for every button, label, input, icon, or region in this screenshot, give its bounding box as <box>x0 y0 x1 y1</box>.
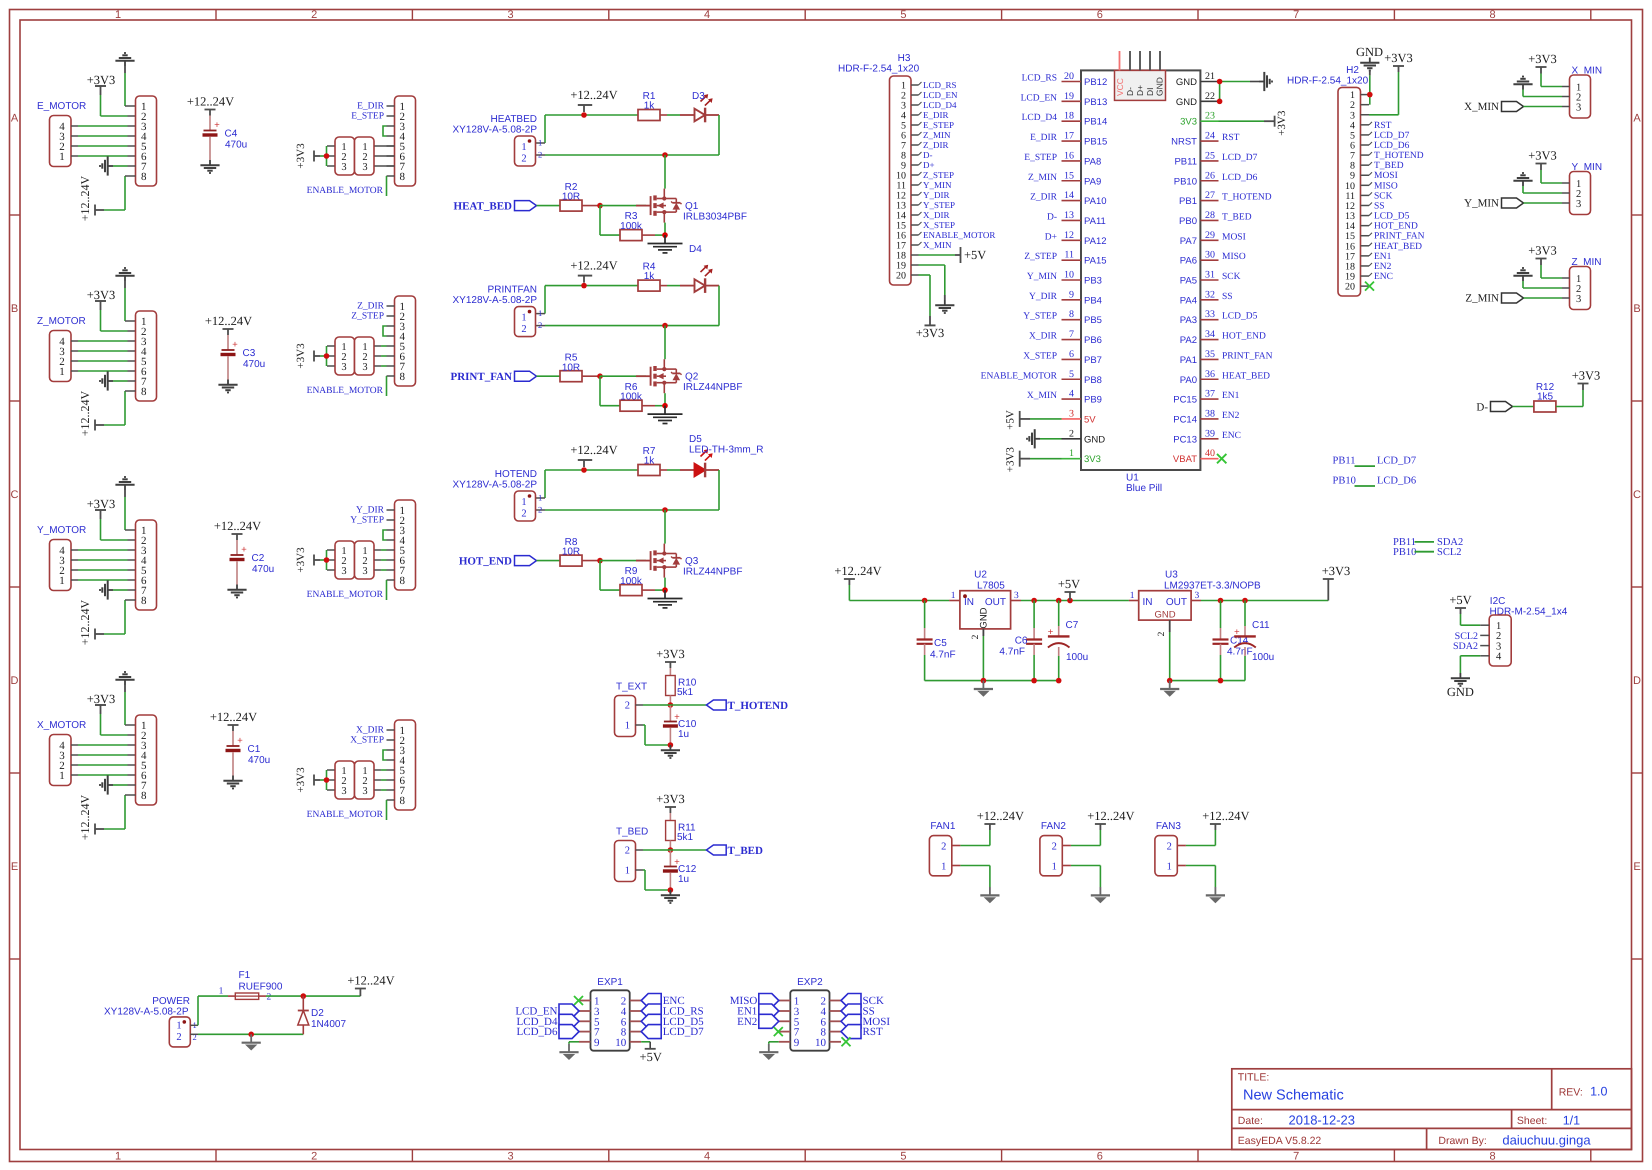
svg-text:+3V3: +3V3 <box>1322 564 1351 578</box>
+12..24V power flag <box>1071 809 1135 846</box>
svg-text:Date:: Date: <box>1238 1115 1263 1127</box>
svg-text:8: 8 <box>141 386 147 398</box>
connector T_BED <box>615 827 649 882</box>
svg-text:PA4: PA4 <box>1180 295 1197 306</box>
svg-text:TITLE:: TITLE: <box>1238 1072 1270 1084</box>
svg-text:1: 1 <box>59 575 65 587</box>
pin 10 PB3 (U1 left) <box>1027 270 1102 287</box>
ground <box>115 672 135 725</box>
resistor R1 1k <box>638 91 667 121</box>
ground <box>1513 268 1562 288</box>
junction <box>597 373 603 379</box>
pin 37 PC15 (U1 right) <box>1173 389 1239 406</box>
svg-text:1: 1 <box>521 497 526 508</box>
no-connect X <box>774 1027 783 1036</box>
resistor R7 1k <box>638 446 667 476</box>
svg-text:24: 24 <box>1205 131 1215 142</box>
svg-text:SDA2: SDA2 <box>1453 641 1478 652</box>
svg-text:IRLZ44NPBF: IRLZ44NPBF <box>683 382 742 393</box>
wire pins 3-4 bridge <box>383 530 387 540</box>
svg-text:Q3: Q3 <box>685 556 699 567</box>
svg-text:4: 4 <box>1069 389 1074 400</box>
svg-text:D+: D+ <box>1045 232 1057 242</box>
svg-text:3: 3 <box>362 362 367 373</box>
svg-text:RST: RST <box>1222 133 1240 143</box>
connector PRINTFAN XY128V-A-5.08-2P <box>453 285 543 337</box>
svg-text:17: 17 <box>1064 131 1074 142</box>
svg-text:7: 7 <box>1293 1151 1299 1163</box>
wire pin1 to ground <box>960 866 990 888</box>
connector HEATBED XY128V-A-5.08-2P <box>453 114 543 166</box>
svg-text:+: + <box>241 545 247 556</box>
svg-text:T_BED: T_BED <box>1222 212 1252 222</box>
svg-text:T_BED: T_BED <box>1374 161 1404 171</box>
pin 27 PB1 (U1 right) <box>1179 190 1272 207</box>
wire U2 out rail <box>1021 600 1129 602</box>
svg-text:2: 2 <box>1052 841 1057 852</box>
svg-text:+3V3: +3V3 <box>87 73 116 87</box>
svg-text:EN1: EN1 <box>1222 391 1240 401</box>
pin 11 PA15 (U1 left) <box>1024 250 1106 267</box>
input flag HEAT_BED <box>454 200 560 212</box>
pin 33 PA3 (U1 right) <box>1180 309 1258 326</box>
svg-text:NRST: NRST <box>1171 137 1197 148</box>
svg-text:20: 20 <box>1345 282 1355 293</box>
capacitor C6 4.7nF <box>999 601 1042 681</box>
capacitor C11 100u (electrolytic) <box>1234 601 1274 681</box>
svg-text:+5V: +5V <box>1005 410 1017 430</box>
svg-text:6: 6 <box>1069 349 1074 360</box>
svg-text:OUT: OUT <box>985 597 1006 608</box>
svg-text:+5V: +5V <box>1058 577 1080 591</box>
wire I2C pin4 to ground <box>1460 656 1480 673</box>
svg-text:8: 8 <box>400 171 406 183</box>
svg-text:5V: 5V <box>1084 414 1096 425</box>
svg-text:4: 4 <box>704 9 710 21</box>
svg-text:LCD_D7: LCD_D7 <box>1222 153 1258 163</box>
header Z-driver 8-pin <box>387 296 416 386</box>
svg-text:10: 10 <box>615 1037 627 1049</box>
connector Z_MOTOR (Z_MOTOR 4-pin) <box>37 316 86 382</box>
svg-text:+3V3: +3V3 <box>1528 244 1557 258</box>
diode D2 1N4007 <box>298 996 347 1034</box>
junction <box>1056 678 1062 684</box>
no-connect X <box>842 1037 851 1046</box>
connector driver 3-pin B <box>355 541 387 579</box>
svg-text:1: 1 <box>941 861 946 872</box>
svg-text:PA5: PA5 <box>1180 276 1197 287</box>
pin 23 3V3 (U1 right) <box>1180 111 1218 128</box>
svg-text:2: 2 <box>521 324 526 335</box>
ground <box>661 745 680 758</box>
bus flag RST <box>841 1025 883 1039</box>
svg-text:T_BED: T_BED <box>728 845 764 857</box>
svg-text:FAN3: FAN3 <box>1156 821 1181 832</box>
svg-text:D-: D- <box>1476 401 1488 413</box>
svg-text:3: 3 <box>341 362 346 373</box>
junction <box>324 557 330 563</box>
svg-text:ENC: ENC <box>1222 431 1241 441</box>
svg-text:+3V3: +3V3 <box>295 143 307 169</box>
+3V3 power flag (rotated) <box>295 767 327 793</box>
pin 39 PC13 (U1 right) <box>1173 428 1241 445</box>
+12..24V power flag (rotated) <box>78 599 136 645</box>
svg-text:E_DIR: E_DIR <box>923 110 949 120</box>
svg-text:X_STEP: X_STEP <box>350 736 384 746</box>
svg-text:Z_DIR: Z_DIR <box>1030 193 1058 203</box>
svg-text:PRINT_FAN: PRINT_FAN <box>1222 351 1273 361</box>
svg-text:+3V3: +3V3 <box>87 288 116 302</box>
svg-text:3V3: 3V3 <box>1180 117 1197 128</box>
svg-text:B: B <box>11 303 18 315</box>
svg-text:GND: GND <box>1176 97 1197 108</box>
svg-text:100k: 100k <box>620 576 643 587</box>
svg-text:EN2: EN2 <box>1222 411 1240 421</box>
ground <box>218 380 237 393</box>
svg-text:+3V3: +3V3 <box>87 497 116 511</box>
svg-text:4: 4 <box>1496 652 1502 663</box>
connector HOTEND XY128V-A-5.08-2P <box>453 469 543 521</box>
svg-text:+: + <box>214 120 220 131</box>
ground <box>1091 887 1110 903</box>
connector FAN2 <box>1040 821 1071 876</box>
+3V3 power flag (rotated) <box>295 143 327 169</box>
pin 1 3V3 (U1 left) <box>1062 448 1101 465</box>
svg-text:1k: 1k <box>644 455 656 466</box>
pin 31 PA5 (U1 right) <box>1180 270 1241 287</box>
svg-text:15: 15 <box>1064 170 1074 181</box>
connector Z_MIN 3-pin <box>1562 257 1602 310</box>
+12..24V power flag <box>347 974 394 997</box>
svg-text:GND: GND <box>1447 685 1474 699</box>
header EXP1 <box>579 977 641 1051</box>
svg-text:20: 20 <box>896 271 906 282</box>
svg-text:OUT: OUT <box>1166 597 1187 608</box>
svg-text:+12..24V: +12..24V <box>1087 809 1134 823</box>
resistor R3 100k <box>600 206 665 241</box>
svg-text:MISO: MISO <box>1222 252 1246 262</box>
wire +12V rail <box>536 115 639 143</box>
svg-text:XY128V-A-5.08-2P: XY128V-A-5.08-2P <box>453 295 538 306</box>
svg-text:Z_STEP: Z_STEP <box>923 170 954 180</box>
junction <box>1217 79 1223 85</box>
capacitor C14 4.7nF <box>1213 601 1253 681</box>
junction <box>301 993 307 999</box>
ground (right arrow) <box>1259 72 1272 91</box>
svg-text:1u: 1u <box>678 874 689 885</box>
svg-text:PB10: PB10 <box>1333 475 1356 486</box>
svg-text:+12..24V: +12..24V <box>187 95 234 109</box>
svg-text:Y_STEP: Y_STEP <box>923 200 955 210</box>
junction <box>324 353 330 359</box>
input flag D- <box>1476 401 1534 413</box>
svg-text:LCD_D4: LCD_D4 <box>1022 113 1058 123</box>
+12..24V power flag <box>1186 809 1250 846</box>
svg-text:3V3: 3V3 <box>1084 454 1101 465</box>
svg-text:+3V3: +3V3 <box>1384 51 1413 65</box>
wire H2 pins 1-2 gnd <box>1369 95 1371 105</box>
junction <box>248 1032 254 1038</box>
resistor R2 10R <box>560 182 600 211</box>
svg-text:31: 31 <box>1205 270 1215 281</box>
svg-text:26: 26 <box>1205 170 1215 181</box>
svg-text:New Schematic: New Schematic <box>1243 1088 1344 1104</box>
bus flag MISO <box>730 994 779 1008</box>
svg-text:+12..24V: +12..24V <box>570 88 617 102</box>
svg-text:8: 8 <box>141 595 147 607</box>
junction <box>581 283 587 289</box>
wire source <box>664 223 666 236</box>
svg-text:12: 12 <box>1064 230 1074 241</box>
pin 15 PA9 (U1 left) <box>1028 170 1101 187</box>
ground <box>115 53 135 106</box>
svg-text:Q2: Q2 <box>685 372 699 383</box>
svg-text:X_MIN: X_MIN <box>1464 101 1499 113</box>
svg-text:PB1: PB1 <box>1179 196 1197 207</box>
svg-text:470u: 470u <box>225 140 247 151</box>
svg-text:HEAT_BED: HEAT_BED <box>454 200 513 212</box>
svg-text:C6: C6 <box>1015 636 1028 647</box>
svg-text:T_HOTEND: T_HOTEND <box>1374 151 1424 161</box>
svg-text:2: 2 <box>1157 631 1167 636</box>
svg-text:PC14: PC14 <box>1173 414 1197 425</box>
junction <box>662 507 668 513</box>
svg-text:3: 3 <box>508 9 514 21</box>
svg-text:28: 28 <box>1205 210 1215 221</box>
pin 12 PA12 (U1 left) <box>1045 230 1107 247</box>
svg-text:2: 2 <box>538 505 542 515</box>
svg-text:IRLB3034PBF: IRLB3034PBF <box>683 212 747 223</box>
svg-text:T_BED: T_BED <box>616 827 648 838</box>
wire to ground <box>769 1042 779 1044</box>
capacitor C2 470u <box>230 540 275 585</box>
svg-text:X_MIN: X_MIN <box>923 240 952 250</box>
+3V3 power flag <box>1528 52 1562 87</box>
regulator U3 LM2937ET-3.3/NOPB <box>1129 570 1261 637</box>
LED D5 <box>667 434 763 477</box>
ground <box>223 776 242 789</box>
ground <box>1160 681 1179 697</box>
wire pin1 to gnd node <box>643 725 670 745</box>
svg-text:Y_MOTOR: Y_MOTOR <box>37 525 86 536</box>
svg-text:GND: GND <box>979 607 990 628</box>
svg-text:8: 8 <box>141 171 147 183</box>
svg-text:E: E <box>1633 861 1640 873</box>
+3V3 power flag <box>916 316 945 340</box>
svg-text:Y_STEP: Y_STEP <box>350 516 384 526</box>
svg-text:X_STEP: X_STEP <box>923 220 955 230</box>
svg-text:1: 1 <box>1130 591 1135 601</box>
svg-text:POWER: POWER <box>152 996 190 1007</box>
svg-text:2: 2 <box>1167 841 1172 852</box>
svg-text:2: 2 <box>311 1151 317 1163</box>
svg-text:T_HOTEND: T_HOTEND <box>728 700 789 712</box>
junction <box>662 323 668 329</box>
svg-text:Z_DIR: Z_DIR <box>357 302 385 312</box>
svg-text:1u: 1u <box>678 729 689 740</box>
svg-text:8: 8 <box>400 371 406 383</box>
svg-text:C1: C1 <box>248 744 261 755</box>
svg-text:MISO: MISO <box>1374 181 1398 191</box>
svg-text:+12..24V: +12..24V <box>210 710 257 724</box>
+5V power flag (H3 pin 18) <box>919 247 987 263</box>
svg-text:PB8: PB8 <box>1084 375 1102 386</box>
regulator U2 L7805 <box>949 570 1021 640</box>
pin 2 GND (U1 left) <box>1062 428 1106 445</box>
+12..24V power flag <box>960 809 1024 846</box>
svg-text:D3: D3 <box>692 91 705 102</box>
svg-text:8: 8 <box>1490 9 1496 21</box>
+12..24V power flag (regulator input) <box>834 564 924 601</box>
wire source <box>664 393 666 406</box>
junction <box>597 558 603 564</box>
svg-text:GND: GND <box>1084 434 1105 445</box>
svg-text:U1: U1 <box>1126 473 1139 484</box>
svg-text:LCD_D7: LCD_D7 <box>1377 456 1416 467</box>
wire motor to header <box>78 341 136 371</box>
svg-text:+12..24V: +12..24V <box>214 519 261 533</box>
LED D4 <box>667 244 719 293</box>
svg-text:1: 1 <box>538 138 542 148</box>
svg-text:29: 29 <box>1205 230 1215 241</box>
svg-text:+3V3: +3V3 <box>87 692 116 706</box>
svg-text:1k: 1k <box>644 100 656 111</box>
svg-text:1k5: 1k5 <box>1537 392 1554 403</box>
svg-text:LCD_D6: LCD_D6 <box>517 1026 558 1038</box>
resistor R6 100k <box>600 376 665 411</box>
svg-text:HEATBED: HEATBED <box>491 114 538 125</box>
svg-text:+3V3: +3V3 <box>1528 52 1557 66</box>
connector driver 3-pin A <box>327 137 355 175</box>
pin 26 PB10 (U1 right) <box>1174 170 1258 187</box>
svg-text:10R: 10R <box>562 547 580 558</box>
svg-text:3: 3 <box>362 566 367 577</box>
svg-text:6: 6 <box>1097 1151 1103 1163</box>
ground (left arrow) <box>100 156 136 175</box>
header Z_MOTOR 8-pin <box>136 311 157 401</box>
svg-text:+3V3: +3V3 <box>1572 369 1601 383</box>
ground <box>648 590 683 608</box>
capacitor C5 4.7nF <box>917 601 956 681</box>
svg-text:Y_MIN: Y_MIN <box>923 180 952 190</box>
svg-text:IN: IN <box>964 597 974 608</box>
svg-text:LCD_EN: LCD_EN <box>1021 93 1058 103</box>
svg-text:3: 3 <box>341 566 346 577</box>
svg-text:D-: D- <box>923 150 933 160</box>
header Y_MOTOR 8-pin <box>136 520 157 610</box>
junction <box>1218 678 1224 684</box>
bus flag LCD_D4 <box>517 1014 579 1028</box>
wire drain <box>664 326 666 360</box>
junction <box>668 742 674 748</box>
svg-text:2: 2 <box>521 509 526 520</box>
svg-text:SCL2: SCL2 <box>1437 547 1462 558</box>
wire U3 pin2 to rail <box>1169 632 1171 681</box>
net label ENABLE_MOTOR + wire <box>307 176 387 196</box>
LED D3 <box>667 91 719 122</box>
svg-text:ENABLE_MOTOR: ENABLE_MOTOR <box>981 371 1058 381</box>
svg-text:VBAT: VBAT <box>1173 454 1197 465</box>
svg-text:2: 2 <box>193 1032 197 1042</box>
no-connect X <box>574 996 583 1005</box>
svg-text:C2: C2 <box>252 553 265 564</box>
svg-text:5: 5 <box>900 9 906 21</box>
svg-text:SCK: SCK <box>1374 191 1393 201</box>
wire drain <box>664 510 666 544</box>
svg-text:C7: C7 <box>1066 620 1079 631</box>
svg-text:PA2: PA2 <box>1180 335 1197 346</box>
wire to ground <box>569 1042 579 1044</box>
svg-text:PA7: PA7 <box>1180 236 1197 247</box>
svg-text:Z_MIN: Z_MIN <box>1028 173 1057 183</box>
net label ENABLE_MOTOR + wire <box>307 580 387 600</box>
junction <box>581 112 587 118</box>
svg-text:PB10: PB10 <box>1393 547 1416 558</box>
svg-text:daiuchuu.ginga: daiuchuu.ginga <box>1502 1133 1591 1148</box>
ground <box>974 681 993 697</box>
pin 16 PA8 (U1 left) <box>1024 150 1101 167</box>
bus flag LCD_D7 <box>641 1025 704 1039</box>
connector driver 3-pin B <box>355 137 395 175</box>
svg-text:X_DIR: X_DIR <box>923 210 950 220</box>
ground (U1 pin 2) <box>1027 429 1062 448</box>
connector Y_MOTOR (Y_MOTOR 4-pin) <box>37 525 86 591</box>
wire H3 pin 19 to ground <box>919 265 945 300</box>
svg-text:+3V3: +3V3 <box>916 326 945 340</box>
junction <box>324 777 330 783</box>
svg-text:PA10: PA10 <box>1084 196 1107 207</box>
bus flag SCK <box>841 994 884 1008</box>
svg-text:PRINT_FAN: PRINT_FAN <box>1374 232 1425 242</box>
svg-text:3: 3 <box>362 162 367 173</box>
wire motor to header <box>78 745 136 775</box>
input flag PRINT_FAN <box>450 371 560 383</box>
svg-text:FAN2: FAN2 <box>1041 821 1066 832</box>
svg-text:PRINT_FAN: PRINT_FAN <box>450 371 512 383</box>
connector FAN3 <box>1155 821 1186 876</box>
svg-text:7: 7 <box>1293 9 1299 21</box>
wire motor to header <box>78 550 136 580</box>
svg-text:EasyEDA V5.8.22: EasyEDA V5.8.22 <box>1238 1135 1322 1147</box>
svg-text:HEAT_BED: HEAT_BED <box>1222 371 1270 381</box>
svg-text:LCD_D7: LCD_D7 <box>663 1026 704 1038</box>
svg-text:LCD_D6: LCD_D6 <box>1222 173 1258 183</box>
wire pin2 to junction <box>643 849 660 851</box>
svg-text:LCD_D4: LCD_D4 <box>923 100 957 110</box>
wire +3V3 bus <box>326 770 328 790</box>
junction <box>668 847 674 853</box>
svg-text:37: 37 <box>1205 389 1215 400</box>
svg-text:ENABLE_MOTOR: ENABLE_MOTOR <box>923 230 995 240</box>
svg-text:+3V3: +3V3 <box>1528 149 1557 163</box>
svg-text:9: 9 <box>794 1037 800 1049</box>
net tie PB10-SCL2 <box>1393 547 1462 558</box>
junction <box>1031 598 1037 604</box>
svg-text:4.7nF: 4.7nF <box>999 647 1025 658</box>
resistor R10 5k1 (vertical) <box>666 668 697 705</box>
no-connect X (H2 pin 20) <box>1365 282 1374 291</box>
svg-text:+5V: +5V <box>640 1050 662 1064</box>
svg-text:PB0: PB0 <box>1179 216 1197 227</box>
wire U2 ground rail <box>925 680 1059 682</box>
svg-text:GND: GND <box>1356 45 1383 59</box>
svg-text:D4: D4 <box>689 244 702 255</box>
fuse F1 RUEF900 <box>219 970 283 1003</box>
svg-text:+12..24V: +12..24V <box>78 599 92 645</box>
junction <box>1167 678 1173 684</box>
header E_MOTOR 8-pin <box>136 96 157 186</box>
svg-text:35: 35 <box>1205 349 1215 360</box>
